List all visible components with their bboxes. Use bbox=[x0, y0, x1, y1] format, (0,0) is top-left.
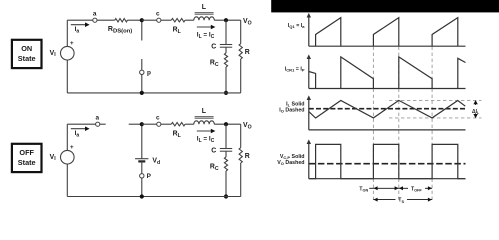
svg-text:State: State bbox=[18, 54, 36, 63]
svg-text:+: + bbox=[70, 144, 74, 151]
svg-text:P: P bbox=[147, 173, 152, 180]
svg-text:C: C bbox=[211, 44, 216, 51]
svg-text:L: L bbox=[202, 108, 206, 115]
svg-text:State: State bbox=[18, 158, 36, 167]
svg-text:R: R bbox=[245, 49, 250, 56]
svg-text:c: c bbox=[156, 10, 160, 17]
svg-text:VO Dashed: VO Dashed bbox=[277, 160, 304, 166]
svg-text:IQ1 = Ia: IQ1 = Ia bbox=[288, 23, 305, 29]
svg-text:+: + bbox=[70, 40, 74, 47]
svg-text:OFF: OFF bbox=[19, 148, 34, 157]
svg-text:IO Dashed: IO Dashed bbox=[279, 107, 304, 113]
svg-text:L: L bbox=[202, 4, 206, 11]
svg-text:ICR1 = IP: ICR1 = IP bbox=[285, 66, 305, 72]
svg-text:R: R bbox=[245, 153, 250, 160]
svg-text:a: a bbox=[96, 115, 100, 122]
svg-text:c: c bbox=[156, 114, 160, 121]
svg-text:C: C bbox=[211, 148, 216, 155]
svg-text:a: a bbox=[93, 11, 97, 18]
svg-text:ON: ON bbox=[21, 44, 32, 53]
svg-text:p: p bbox=[147, 70, 151, 77]
